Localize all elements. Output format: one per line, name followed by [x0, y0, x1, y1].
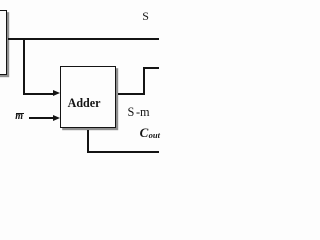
- adder U1: [60, 66, 116, 128]
- wire S (horizontal bus from left box to right edge): [8, 38, 159, 40]
- m-bar label overline: [16, 113, 24, 114]
- m-bar label: [15, 112, 23, 122]
- wire into adder input 2: [29, 117, 54, 119]
- wire S-m to right edge: [143, 67, 159, 69]
- wire into adder input 1: [23, 93, 55, 95]
- wire Cout vertical from adder bottom: [87, 130, 89, 152]
- node S-m label: [128, 106, 150, 118]
- node Cout subscript: [149, 131, 160, 140]
- node Cout label: [140, 126, 149, 139]
- arrowhead input 2: [53, 115, 60, 121]
- adder label: [68, 97, 101, 109]
- wire S-m vertical riser: [143, 67, 145, 95]
- register box (left, cut off): [0, 10, 7, 76]
- arrowhead input 1: [53, 90, 60, 96]
- wire S-m horizontal from adder right edge: [118, 93, 146, 95]
- wire branch down from S bus: [23, 38, 25, 95]
- node S label: [142, 10, 149, 22]
- wire Cout to right edge: [87, 151, 159, 153]
